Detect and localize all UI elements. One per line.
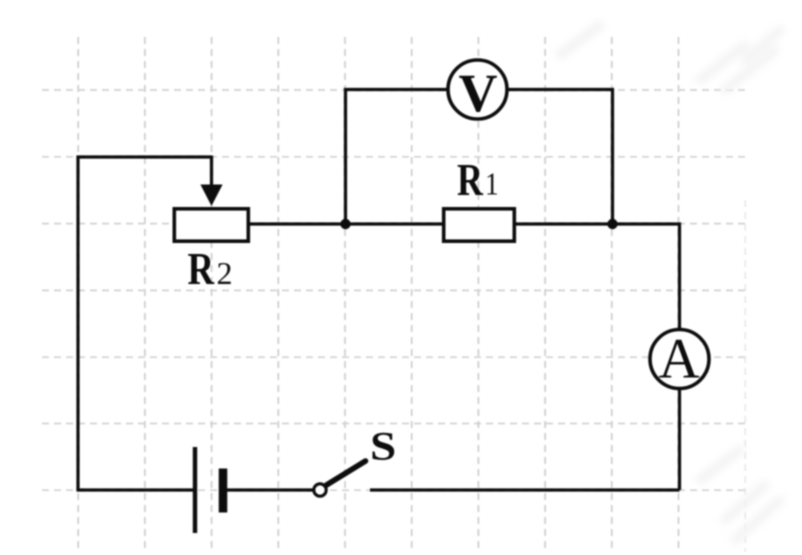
wire top-left horizontal from left branch corner to rheostat wiper bbox=[78, 157, 212, 159]
faint watermark smudges bbox=[560, 25, 780, 540]
wire bottom left to battery bbox=[78, 489, 193, 491]
svg-text:S: S bbox=[370, 425, 396, 469]
wire voltmeter branch right bbox=[509, 90, 613, 225]
switch S pivot circle bbox=[314, 484, 326, 496]
rheostat wiper arrowhead bbox=[200, 185, 222, 207]
svg-text:A: A bbox=[659, 328, 700, 391]
ammeter A bbox=[650, 330, 709, 389]
svg-text:R: R bbox=[188, 244, 215, 295]
wire bottom right bbox=[370, 488, 680, 491]
wire R2 to junction A bbox=[250, 222, 346, 225]
node B junction dot bbox=[607, 219, 617, 229]
svg-text:2: 2 bbox=[217, 255, 233, 291]
node A junction dot bbox=[340, 219, 350, 229]
wire battery to switch bbox=[227, 488, 313, 491]
switch S lever bbox=[327, 461, 366, 485]
battery short thick plate (negative) bbox=[219, 469, 228, 513]
wire R1 to junction B bbox=[516, 222, 613, 225]
battery long plate (positive) bbox=[193, 447, 197, 533]
svg-text:V: V bbox=[459, 63, 498, 123]
wire junction B to ammeter bbox=[613, 224, 680, 330]
wire voltmeter branch left bbox=[346, 90, 448, 225]
wire ammeter down to bottom right corner bbox=[678, 389, 681, 491]
svg-text:R: R bbox=[457, 154, 484, 205]
wire left vertical branch bbox=[76, 157, 79, 490]
resistor R2 (rheostat body) bbox=[174, 209, 248, 241]
voltmeter V bbox=[448, 60, 507, 119]
svg-text:1: 1 bbox=[485, 168, 499, 202]
wire junction A to R1 bbox=[346, 222, 444, 225]
wire rheostat wiper shaft bbox=[210, 156, 213, 189]
resistor R1 bbox=[444, 209, 515, 241]
